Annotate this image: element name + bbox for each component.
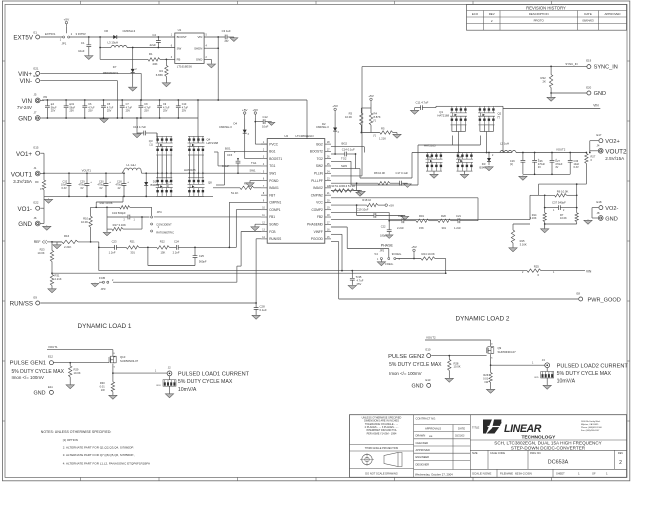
svg-text:Imon </= 100mV: Imon </= 100mV (389, 371, 422, 376)
svg-text:BG1: BG1 (269, 150, 276, 154)
svg-text:4V: 4V (538, 166, 541, 169)
svg-text:L2 1uH: L2 1uH (500, 142, 509, 146)
svg-text:VOUT1: VOUT1 (11, 171, 33, 178)
resistor R25 (352, 270, 527, 272)
ground at R28 (448, 377, 450, 380)
svg-text:+5V: +5V (368, 94, 375, 98)
ground at R13 (357, 190, 362, 192)
svg-text:RUN/SS: RUN/SS (10, 301, 33, 308)
svg-text:SYNC_IN: SYNC_IN (594, 65, 618, 71)
U2 pin 20 VCC (325, 201, 331, 203)
U2 pin 10 COMP1 (261, 209, 267, 211)
wire VOUT1 rail (44, 172, 124, 174)
connector E17 VO2+ (599, 139, 603, 143)
svg-text:RUN/SS: RUN/SS (269, 237, 281, 241)
resistor R3 (361, 107, 371, 109)
svg-text:CAGE CODE: CAGE CODE (490, 452, 505, 455)
svg-text:E16: E16 (34, 74, 39, 78)
svg-text:E1: E1 (34, 30, 38, 34)
U2 pin 4 TG1 (261, 165, 267, 167)
connector E20 GND (587, 91, 591, 95)
wire RUN/SS long (40, 302, 256, 304)
wire INT5V net (70, 36, 175, 38)
svg-text:VIN: VIN (197, 35, 202, 39)
svg-text:6.65K: 6.65K (156, 73, 163, 77)
wire VIN to Q4 drain bus (197, 118, 199, 143)
wire FB2 network top (539, 183, 587, 185)
capacitor C36 (569, 152, 571, 154)
svg-text:VOUT2: VOUT2 (605, 149, 627, 156)
svg-text:TITLE: TITLE (472, 426, 480, 430)
capacitor C8 (140, 99, 142, 101)
wire to J2 (113, 372, 167, 374)
wire SW1 to Q7 Q8 drains (157, 173, 159, 178)
svg-text:C1: C1 (81, 41, 85, 45)
svg-text:+5V: +5V (253, 108, 260, 112)
svg-text:R24 10.0K: R24 10.0K (422, 252, 435, 256)
resistor R13 (340, 189, 354, 192)
svg-text:10.0K: 10.0K (81, 220, 88, 224)
svg-text:90 DEG.: 90 DEG. (392, 252, 402, 256)
svg-text:PULSED LOAD2 CURRENT: PULSED LOAD2 CURRENT (557, 363, 629, 369)
transistor Q3 (156, 135, 172, 137)
capacitor C18 (123, 172, 125, 174)
svg-text:C12: C12 (263, 115, 269, 119)
op-amp U2 LTC3802EGN box (267, 139, 325, 244)
svg-text:20K: 20K (153, 62, 158, 66)
svg-text:2.2nF: 2.2nF (173, 251, 180, 255)
svg-text:+5V: +5V (411, 245, 418, 249)
transistor Q5 (426, 152, 442, 154)
svg-text:DYNAMIC LOAD 2: DYNAMIC LOAD 2 (456, 315, 510, 322)
svg-text:25V: 25V (163, 110, 168, 113)
svg-text:C20: C20 (398, 214, 403, 218)
svg-text:3.16K: 3.16K (530, 216, 537, 220)
ground at J6 (46, 225, 48, 228)
svg-text:8.87K: 8.87K (374, 115, 381, 119)
svg-text:E19: E19 (586, 59, 591, 63)
svg-text:10mV/A: 10mV/A (178, 387, 197, 393)
svg-text:Q5: Q5 (428, 155, 432, 159)
svg-text:3. ALTERNATE PART FOR Q7,Q8,Q5: 3. ALTERNATE PART FOR Q7,Q8,Q5,Q6, Si785… (63, 453, 135, 457)
+5V at R24 (413, 252, 415, 255)
svg-text:E11: E11 (48, 385, 53, 389)
resistor R30 (112, 373, 114, 382)
wire VO2- (592, 207, 598, 209)
VIN input rail (42, 99, 307, 101)
U2 pin 27 BOOST2 (325, 150, 331, 152)
svg-text:1.2nF: 1.2nF (454, 226, 461, 230)
svg-text:U2: U2 (284, 134, 288, 138)
U2 pin 7 IMAX1 (261, 187, 267, 189)
U2 pin 9 CMPIN1 (261, 201, 267, 203)
capacitor C32 (68, 172, 70, 174)
wire SW2 from U2 (331, 168, 360, 170)
svg-text:PULSE GEN2: PULSE GEN2 (388, 354, 424, 360)
transistor Q10 (112, 350, 114, 356)
svg-text:+5V: +5V (64, 17, 71, 21)
transistor Q1 (451, 105, 467, 107)
svg-text:C23: C23 (112, 240, 117, 244)
capacitor C25 (194, 247, 196, 255)
svg-text:JP4: JP4 (157, 210, 162, 214)
svg-text:EXT5V: EXT5V (13, 35, 33, 42)
svg-text:Q7: Q7 (166, 180, 170, 184)
capacitor C29 (86, 172, 88, 174)
svg-text:SIZE: SIZE (472, 452, 478, 455)
load resistor network 2 (546, 368, 548, 372)
ground at R30 (112, 394, 114, 397)
U2 pin 12 SGND (261, 223, 267, 225)
svg-text:R9: R9 (35, 180, 39, 184)
svg-text:C22: C22 (381, 225, 386, 229)
svg-text:GND: GND (412, 384, 424, 390)
svg-text:HAT2168: HAT2168 (437, 114, 449, 118)
svg-text:6V: 6V (100, 187, 103, 190)
svg-text:E21: E21 (34, 67, 39, 71)
connector E18 VO2- (599, 206, 603, 210)
svg-text:E12: E12 (48, 354, 53, 358)
svg-text:R17 3.16K: R17 3.16K (113, 223, 126, 227)
svg-text:0.1uF: 0.1uF (260, 308, 267, 312)
resistor R29 (69, 363, 71, 366)
svg-text:0.01: 0.01 (483, 376, 489, 380)
svg-text:CMDSH-3: CMDSH-3 (316, 125, 329, 129)
capacitor C17 (400, 181, 402, 186)
svg-text:VIN: VIN (22, 98, 32, 105)
svg-text:10.0K: 10.0K (37, 251, 44, 255)
resistor R11 (91, 206, 120, 208)
svg-text:R3: R3 (349, 112, 353, 116)
capacitor C35 (351, 270, 353, 272)
ground at C11 (414, 108, 416, 110)
svg-text:SW: SW (177, 46, 182, 50)
svg-text:CONTRACT NO.: CONTRACT NO. (416, 417, 437, 421)
svg-text:E8: E8 (577, 291, 581, 295)
svg-text:PULSE GEN1: PULSE GEN1 (10, 361, 46, 367)
svg-text:E20: E20 (586, 85, 591, 89)
diode D6 (113, 35, 117, 39)
svg-text:2. ALTERNATE PART FOR Q1,Q2,Q3: 2. ALTERNATE PART FOR Q1,Q2,Q3,Q4, Si786… (63, 446, 134, 450)
svg-text:5.0: 5.0 (375, 253, 379, 256)
svg-text:HAT2165: HAT2165 (184, 168, 196, 172)
svg-text:Q2: Q2 (498, 111, 502, 115)
resistor R15 (512, 224, 514, 230)
svg-text:R31: R31 (55, 274, 60, 278)
ground at R26 (490, 388, 492, 391)
wire PVCC (255, 143, 267, 145)
svg-text:SW2: SW2 (316, 164, 323, 168)
svg-text:STEP-DOWN DC/DC-CONVERTER: STEP-DOWN DC/DC-CONVERTER (511, 446, 586, 451)
svg-text:CMDSH-3: CMDSH-3 (123, 29, 136, 33)
svg-text:IMAX1: IMAX1 (269, 186, 279, 190)
svg-text:APPROVED: APPROVED (604, 12, 620, 16)
inductor L3 (99, 37, 101, 59)
svg-text:LINEAR: LINEAR (504, 423, 542, 435)
resistor R20 (438, 219, 451, 222)
svg-text:[*]: [*] (498, 115, 501, 119)
diode D3 (488, 153, 490, 159)
svg-text:GND: GND (34, 390, 46, 396)
U2 pin 26 TG2 (325, 158, 331, 160)
wire BOOST2 (331, 153, 335, 155)
wire VINFF route (331, 233, 342, 235)
svg-text:0.1uF: 0.1uF (222, 164, 229, 168)
svg-text:PGND: PGND (269, 179, 279, 183)
capacitor C28 (255, 303, 257, 308)
capacitor C5 (103, 99, 105, 101)
svg-text:R25: R25 (534, 264, 540, 268)
resistor R6 (539, 194, 555, 196)
ground at JP3 (99, 281, 103, 283)
svg-text:COMP2: COMP2 (311, 208, 323, 212)
svg-text:SW1: SW1 (269, 171, 276, 175)
svg-text:+5V: +5V (242, 108, 249, 112)
svg-text:Q3: Q3 (149, 139, 153, 143)
connector E19 SYNC_IN (587, 65, 591, 69)
svg-text:R15: R15 (520, 239, 525, 243)
U2 pin 6 PGND (261, 180, 267, 182)
svg-text:GND: GND (196, 58, 202, 62)
wire TG2 from U2 (331, 160, 351, 162)
svg-text:FILENAME: FILENAME (500, 472, 513, 476)
svg-text:MB: MB (429, 436, 433, 438)
svg-text:Q8: Q8 (208, 180, 212, 184)
svg-text:[*]: [*] (374, 120, 377, 123)
svg-text:C25: C25 (199, 254, 204, 258)
ground at load 2 (546, 378, 548, 385)
svg-text:CMPIN1: CMPIN1 (269, 201, 281, 205)
capacitor C19 (356, 205, 358, 215)
svg-text:FCB: FCB (99, 276, 105, 280)
capacitor C6 (84, 99, 86, 101)
svg-text:3 INT5V: 3 INT5V (76, 32, 86, 36)
svg-text:R7: R7 (560, 213, 564, 217)
svg-text:JP3: JP3 (101, 287, 106, 291)
capacitor C14 (334, 153, 336, 155)
svg-text:1630 McCarthy Blvd.: 1630 McCarthy Blvd. (581, 420, 601, 423)
svg-text:[1]: [1] (150, 143, 153, 147)
node SW1 wire (142, 172, 262, 174)
svg-text:R29: R29 (74, 368, 79, 372)
U2 pin 18 FB2 (325, 216, 331, 218)
svg-text:301: 301 (442, 226, 447, 230)
svg-text:C2: C2 (152, 33, 156, 37)
ground at load 1 (169, 386, 171, 393)
wire PLLLPF row (331, 182, 378, 184)
ground at R2 (165, 77, 167, 83)
capacitor C31 (65, 99, 67, 101)
resistor R27 (586, 152, 588, 154)
ground at C19 (404, 215, 406, 218)
U2 pin 15 PGOOD (325, 238, 331, 240)
svg-text:25V: 25V (357, 282, 362, 286)
svg-text:6.3V: 6.3V (574, 166, 579, 169)
svg-text:SUD50N03-07: SUD50N03-07 (498, 350, 517, 354)
svg-text:R22: R22 (160, 240, 165, 244)
svg-text:R4: R4 (374, 112, 378, 116)
wire EXT5V to JP1 (40, 36, 62, 38)
wire SW2 node bus (412, 152, 512, 154)
wire to J3 (491, 364, 545, 366)
svg-text:JP2: JP2 (380, 249, 385, 253)
svg-text:2.5V/15A: 2.5V/15A (605, 156, 625, 161)
wire PLLIN to SYNC (331, 175, 362, 177)
svg-text:5% DUTY CYCLE MAX: 5% DUTY CYCLE MAX (557, 371, 612, 377)
ground at Q5 Q6 (433, 171, 435, 173)
svg-text:0.01: 0.01 (100, 385, 106, 389)
svg-text:[1]: [1] (510, 162, 513, 166)
svg-text:R6 10.0K: R6 10.0K (557, 190, 569, 194)
svg-text:VINFF: VINFF (314, 230, 323, 234)
svg-text:4.7uF: 4.7uF (357, 278, 364, 282)
svg-text:HAT2168: HAT2168 (207, 141, 219, 145)
svg-text:E17: E17 (597, 133, 602, 137)
svg-text:0 DEG.: 0 DEG. (385, 262, 394, 266)
resistor R4 (370, 108, 372, 113)
ground at JP2 (380, 260, 382, 262)
svg-text:[*]: [*] (458, 159, 461, 163)
svg-text:R10: R10 (83, 217, 88, 221)
svg-text:VIN: VIN (586, 269, 592, 273)
wire FCB route (241, 231, 261, 233)
svg-text:PGOOD: PGOOD (311, 237, 324, 241)
svg-text:LTC3802EGN: LTC3802EGN (296, 134, 314, 138)
svg-text:VOUT1: VOUT1 (82, 168, 92, 172)
svg-text:SW1: SW1 (250, 169, 257, 173)
svg-text:10.0K: 10.0K (345, 115, 352, 119)
svg-text:FB1: FB1 (269, 215, 275, 219)
wire gate Q10 (54, 362, 110, 364)
U2 pin 11 FB1 (261, 216, 267, 218)
wire COMP1 route (236, 209, 261, 211)
svg-text:Milpitas, CA 95035: Milpitas, CA 95035 (581, 423, 599, 426)
svg-text:REF: REF (34, 240, 41, 244)
svg-text:02/21/03: 02/21/03 (455, 435, 465, 438)
ground at C12 (271, 121, 273, 124)
svg-text:HAT2165: HAT2165 (424, 143, 436, 147)
svg-text:R30: R30 (100, 381, 105, 385)
svg-text:PLLLPF: PLLLPF (311, 179, 323, 183)
svg-text:C11 4.7uF: C11 4.7uF (416, 100, 429, 104)
svg-text:Imon </= 100mV: Imon </= 100mV (12, 375, 45, 380)
svg-text:653A-2.DSN: 653A-2.DSN (515, 472, 532, 476)
svg-text:DESCRIPTION: DESCRIPTION (529, 12, 549, 16)
wire IMAX2 to R4 (331, 190, 340, 192)
svg-text:E15: E15 (34, 146, 39, 150)
svg-text:1.21K: 1.21K (379, 137, 386, 141)
svg-text:BG2: BG2 (342, 142, 348, 146)
output gnd rail 2 (523, 173, 570, 175)
ground at U1 GND pin (204, 58, 211, 60)
U2 pin 25 SW2 (325, 165, 331, 167)
svg-text:10uF: 10uF (78, 49, 85, 53)
ground at J8 (587, 219, 589, 222)
svg-text:301: 301 (130, 251, 135, 255)
capacitor C10 (177, 99, 179, 101)
svg-text:2.21K: 2.21K (55, 277, 62, 281)
ground at PGND (250, 180, 261, 182)
svg-text:15K: 15K (161, 251, 166, 255)
svg-text:C3 1uF: C3 1uF (222, 29, 231, 33)
wire PHASEMD route (331, 226, 347, 228)
ground at R14 (544, 223, 546, 225)
svg-text:D6: D6 (105, 29, 109, 33)
svg-text:GND: GND (594, 91, 606, 97)
wire Q1 Q2 gate drops (452, 136, 454, 146)
svg-text:PLLIN: PLLIN (314, 171, 324, 175)
svg-text:R26: R26 (483, 373, 488, 377)
U2 pin 8 FBT (261, 194, 267, 196)
capacitor C23 (99, 246, 115, 248)
ground at R32 (550, 93, 552, 97)
svg-text:5% DUTY CYCLE MAX: 5% DUTY CYCLE MAX (178, 379, 233, 385)
svg-text:PVCC: PVCC (269, 142, 279, 146)
svg-text:C17 0.1uF: C17 0.1uF (396, 171, 409, 175)
svg-text:FB: FB (177, 58, 181, 62)
svg-text:560pF: 560pF (199, 259, 207, 263)
svg-text:TG1: TG1 (251, 161, 257, 165)
svg-text:U1: U1 (178, 28, 182, 32)
ground at R17 (106, 229, 108, 231)
svg-text:PER ASME Y14.5M - 1994: PER ASME Y14.5M - 1994 (367, 432, 397, 435)
output gnd rail 1 (44, 195, 213, 197)
connector J8 GND (598, 216, 603, 221)
resistor R28 (448, 356, 450, 360)
capacitor C20 (402, 218, 404, 223)
svg-text:DYNAMIC LOAD 1: DYNAMIC LOAD 1 (78, 323, 132, 330)
svg-text:BG1: BG1 (225, 146, 231, 150)
wire VO2+ (590, 140, 599, 142)
transistor Q8 (188, 177, 204, 179)
wire Q10 source (112, 364, 114, 374)
svg-text:C35: C35 (357, 275, 362, 279)
svg-text:4V: 4V (555, 166, 558, 169)
U2 pin 17 PHASEMD (325, 223, 331, 225)
svg-text:C14 0.1uF: C14 0.1uF (342, 147, 355, 151)
svg-text:DC653A: DC653A (548, 460, 569, 466)
svg-text:DRAWN: DRAWN (416, 434, 426, 438)
wire CMPIN1 route (229, 201, 261, 203)
wire VIN- rail (40, 80, 117, 82)
svg-text:[1] OPTION: [1] OPTION (63, 438, 78, 442)
svg-text:REVISION HISTORY: REVISION HISTORY (526, 5, 566, 10)
svg-text:RATIOMETRIC: RATIOMETRIC (156, 231, 174, 235)
wire Q3 Q4 sources to SW1 (157, 155, 159, 173)
resistor R9 (43, 173, 45, 180)
svg-text:BOOST1: BOOST1 (269, 157, 282, 161)
net label TG1 (218, 165, 261, 167)
ground at R16 (56, 242, 58, 244)
svg-text:PROTO: PROTO (534, 19, 545, 23)
svg-text:E10: E10 (426, 348, 431, 352)
svg-text:R14: R14 (532, 213, 537, 217)
svg-text:25V: 25V (225, 41, 230, 43)
capacitor C7 (121, 99, 123, 101)
svg-text:6V: 6V (81, 187, 84, 190)
svg-text:VIN: VIN (593, 104, 599, 108)
net label BG1 (225, 150, 262, 152)
resistor R5 (361, 132, 380, 134)
svg-text:CONCIDENT: CONCIDENT (156, 222, 172, 226)
svg-text:VIN-: VIN- (20, 78, 32, 85)
svg-text:VO2-: VO2- (605, 206, 618, 212)
ground at C35 (351, 284, 353, 287)
svg-text:SGND: SGND (269, 223, 279, 227)
svg-text:R20: R20 (441, 214, 446, 218)
svg-text:VOUT2: VOUT2 (426, 336, 436, 340)
wire U1 SHDN tie (204, 47, 218, 49)
